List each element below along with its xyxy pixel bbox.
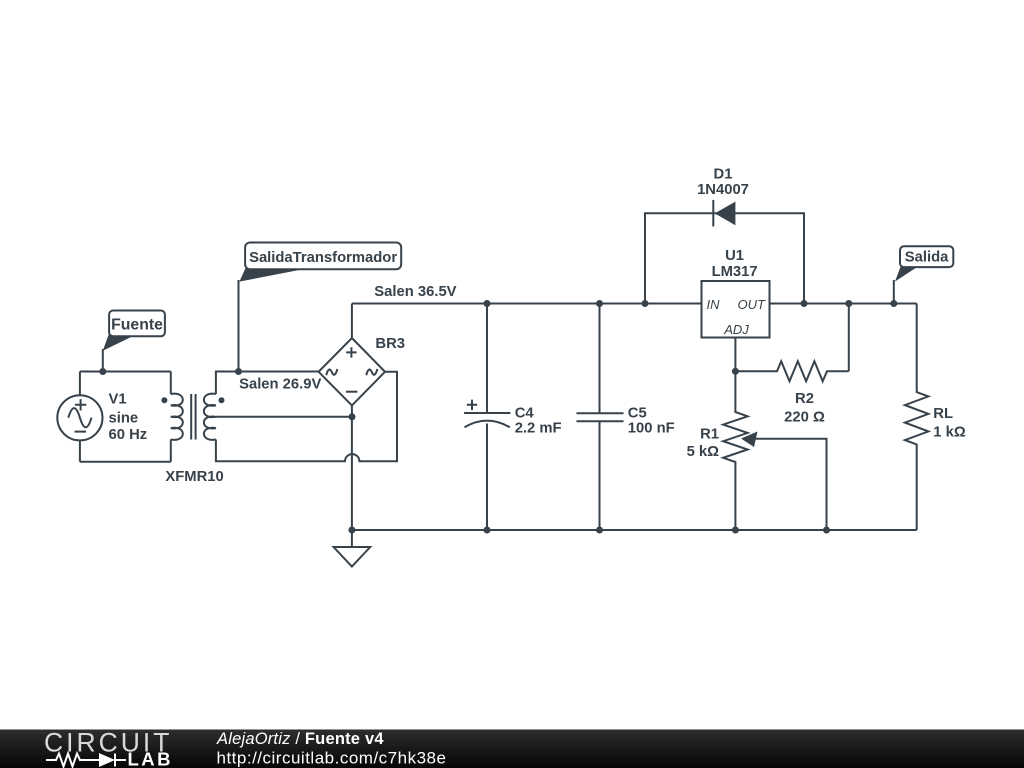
label R2 value xyxy=(784,391,825,426)
wire bottom rail xyxy=(352,529,917,531)
svg-text:1N4007: 1N4007 xyxy=(697,182,749,198)
svg-text:ADJ: ADJ xyxy=(723,322,749,337)
label BR3 xyxy=(375,336,405,352)
svg-text:60 Hz: 60 Hz xyxy=(109,427,148,443)
logo resistor-diode xyxy=(46,753,126,767)
flag Fuente xyxy=(103,311,165,372)
capacitor C4 xyxy=(464,304,510,531)
svg-text:BR3: BR3 xyxy=(375,336,405,352)
svg-text:LAB: LAB xyxy=(128,748,174,768)
svg-text:http://circuitlab.com/c7hk38e: http://circuitlab.com/c7hk38e xyxy=(217,749,447,768)
svg-text:Salen 26.9V: Salen 26.9V xyxy=(239,377,321,393)
svg-text:D1: D1 xyxy=(714,167,733,183)
footer bar xyxy=(0,730,1024,768)
svg-text:sine: sine xyxy=(109,411,139,427)
logo CIRCUIT xyxy=(44,728,172,758)
wire ADJ xyxy=(734,338,736,372)
svg-text:XFMR10: XFMR10 xyxy=(165,469,223,485)
svg-text:220 Ω: 220 Ω xyxy=(784,410,825,426)
node Fuente junction xyxy=(99,368,106,375)
node D1 left xyxy=(642,300,649,307)
flag Salida xyxy=(894,246,954,303)
wire secondary center tap xyxy=(216,416,352,418)
op-amp U1 LM317 xyxy=(702,281,770,338)
svg-text:LM317: LM317 xyxy=(712,264,758,280)
voltage source V1 xyxy=(57,395,102,440)
svg-text:SalidaTransformador: SalidaTransformador xyxy=(249,250,397,266)
node D1 right xyxy=(801,300,808,307)
footer title xyxy=(216,730,384,748)
node R1 wiper bottom xyxy=(823,527,830,534)
svg-text:2.2 mF: 2.2 mF xyxy=(515,421,562,437)
node ADJ junction xyxy=(732,368,739,375)
capacitor C5 xyxy=(577,304,624,531)
svg-text:1 kΩ: 1 kΩ xyxy=(933,425,966,441)
svg-text:R2: R2 xyxy=(795,391,814,407)
label D1 value xyxy=(697,167,749,199)
node R1 bottom xyxy=(732,527,739,534)
wire BR3 bottom to ground rail xyxy=(351,406,353,531)
label RL value xyxy=(933,406,966,441)
wire BR3 top to rail xyxy=(351,304,353,339)
potentiometer R1 xyxy=(723,371,826,530)
diode D1 xyxy=(713,200,735,227)
svg-text:U1: U1 xyxy=(725,248,744,264)
svg-text:C5: C5 xyxy=(628,406,647,422)
svg-text:C4: C4 xyxy=(515,406,535,422)
svg-text:V1: V1 xyxy=(109,392,127,408)
node ground junction xyxy=(348,527,355,534)
node SalidaTransformador junction xyxy=(235,368,242,375)
node C4 top xyxy=(484,300,491,307)
wire D1 branch xyxy=(645,213,804,303)
node Salida junction xyxy=(890,300,897,307)
label Salen 26.9V xyxy=(239,377,321,393)
rectifier BR3 xyxy=(319,338,385,406)
label C4 value xyxy=(515,406,562,437)
wire V1 loop xyxy=(80,372,171,462)
svg-text:Fuente: Fuente xyxy=(111,317,163,334)
flag SalidaTransformador xyxy=(239,243,402,372)
wire top rail xyxy=(352,303,917,305)
svg-text:Salida: Salida xyxy=(905,250,949,266)
node R2 top xyxy=(845,300,852,307)
label Salen 36.5V xyxy=(374,284,456,300)
label XFMR10 xyxy=(165,469,223,485)
transformer XFMR10 xyxy=(161,394,224,440)
node C5 bottom xyxy=(596,527,603,534)
node C5 top xyxy=(596,300,603,307)
svg-text:Salen 36.5V: Salen 36.5V xyxy=(374,284,456,300)
node center tap junction xyxy=(349,413,356,420)
label U1 value xyxy=(712,248,758,280)
node C4 bottom xyxy=(484,527,491,534)
logo LAB xyxy=(128,748,174,768)
svg-text:R1: R1 xyxy=(700,427,719,443)
svg-text:100 nF: 100 nF xyxy=(628,421,675,437)
footer url xyxy=(217,749,447,768)
label V1 value xyxy=(109,392,148,444)
ground xyxy=(334,530,371,567)
label R1 value xyxy=(687,427,720,461)
resistor R2 xyxy=(735,304,848,382)
svg-text:5 kΩ: 5 kΩ xyxy=(687,444,720,460)
svg-text:RL: RL xyxy=(933,406,953,422)
resistor RL xyxy=(905,304,929,531)
svg-text:IN: IN xyxy=(707,297,721,312)
wire secondary bottom with hop xyxy=(216,372,397,462)
wire secondary top xyxy=(216,372,319,395)
svg-text:AlejaOrtiz / Fuente v4: AlejaOrtiz / Fuente v4 xyxy=(216,730,384,748)
svg-text:OUT: OUT xyxy=(738,297,767,312)
label C5 value xyxy=(628,406,675,437)
